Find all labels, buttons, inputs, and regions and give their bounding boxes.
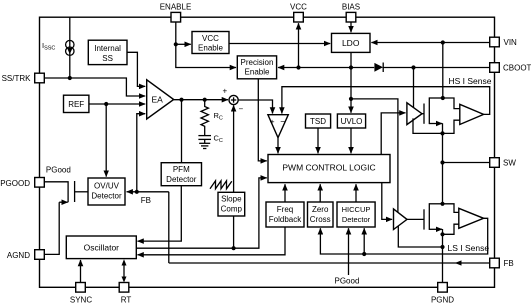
wire Issc from top rail to SS/TRK line — [69, 17, 71, 78]
wire LS FET source to LS sense amp — [443, 224, 459, 234]
junction LS source rail tap — [440, 245, 444, 249]
wire Zero Cross to PWM logic — [319, 184, 321, 202]
junction VCC node above UVLO — [349, 97, 353, 101]
pin ENABLE — [160, 3, 192, 23]
block HICCUP Detector — [337, 202, 375, 227]
wire Freq Foldback to PWM logic — [284, 184, 286, 202]
svg-text:Oscillator: Oscillator — [84, 243, 120, 253]
summing node — [229, 95, 238, 104]
junction VIN line — [441, 40, 445, 44]
block VCC Enable — [192, 32, 229, 54]
wire VIN line to LDO — [371, 42, 489, 44]
svg-text:PGood: PGood — [335, 277, 360, 286]
wire Internal SS to EA input 1 — [127, 52, 145, 86]
junction ENABLE node — [174, 42, 178, 46]
waveform sawtooth slope comp — [210, 181, 232, 189]
junction LDO output at VCC rail — [349, 65, 353, 69]
junction VCC rail at VCC pin — [296, 65, 300, 69]
wire HS current sense feedback to PWM comparator — [282, 87, 490, 115]
wire HICCUP Detector to PWM logic — [355, 184, 357, 202]
svg-text:PFM: PFM — [173, 165, 190, 174]
svg-text:UVLO: UVLO — [341, 117, 363, 126]
svg-text:SS/TRK: SS/TRK — [2, 74, 32, 83]
wire EA output down to PFM Detector — [181, 100, 183, 163]
svg-text:Comp: Comp — [221, 204, 243, 213]
svg-text:REF: REF — [68, 100, 84, 109]
wire HS FET source to HS sense amp — [443, 120, 460, 133]
junction FB node — [135, 190, 139, 194]
wire FB pin to FB node — [169, 262, 490, 264]
block Zero Cross — [308, 202, 334, 227]
pin FB — [490, 258, 514, 268]
wire UVLO to PWM logic — [350, 128, 352, 153]
junction EA output to PFM — [179, 98, 183, 102]
block REF — [64, 95, 89, 112]
wire PFM Detector to Oscillator — [138, 186, 182, 241]
block TSD — [306, 114, 331, 128]
block UVLO — [337, 114, 365, 128]
block Freq Foldback — [266, 202, 304, 227]
junction EA output to compensation — [203, 98, 207, 102]
wire summing node to PWM comparator — [238, 100, 272, 114]
pin CBOOT — [490, 63, 531, 73]
wire HS FET drain to HS sense amp — [443, 98, 460, 109]
junction HS FET source SW node — [440, 131, 444, 135]
capacitor CC compensation — [198, 134, 223, 145]
wire REF to EA input 3 — [89, 103, 145, 105]
pin PGND — [431, 283, 454, 305]
wire LS FET drain to LS sense amp — [443, 204, 459, 213]
arrowhead FB line direction — [455, 260, 462, 265]
wire VCC node to LS driver supply — [351, 99, 398, 212]
diode CBOOT bootstrap — [374, 63, 383, 73]
svg-text:PGND: PGND — [431, 296, 454, 305]
junction SW line — [440, 160, 444, 164]
wire LDO output column to UVLO — [350, 52, 352, 112]
wire SYNC pin to Oscillator — [80, 260, 82, 283]
wire LS FET source to PGND pin — [442, 234, 444, 282]
wire Precision Enable to PWM logic — [258, 79, 267, 161]
pin SS/TRK — [2, 73, 45, 83]
block PFM Detector — [161, 163, 201, 186]
svg-text:Freq: Freq — [277, 205, 293, 214]
svg-text:VCC: VCC — [290, 3, 307, 12]
pin VIN — [490, 37, 517, 47]
wire TSD to PWM logic — [317, 128, 319, 153]
svg-text:Zero: Zero — [312, 205, 329, 214]
svg-text:BIAS: BIAS — [342, 3, 360, 12]
svg-text:Slope: Slope — [221, 195, 242, 204]
current source ISSC — [66, 40, 74, 55]
svg-text:Cross: Cross — [310, 215, 331, 224]
wire ENABLE to Precision Enable — [176, 44, 236, 67]
svg-text:Foldback: Foldback — [269, 215, 302, 224]
block LDO — [332, 33, 371, 52]
svg-text:PWM CONTROL LOGIC: PWM CONTROL LOGIC — [282, 162, 375, 172]
junction CBOOT rail HS driver feed — [411, 65, 415, 69]
junction slope comp tap — [232, 246, 236, 250]
pin VCC — [290, 3, 307, 23]
net stub PGood to HICCUP Detector — [348, 228, 350, 275]
junction LS FET drain — [440, 202, 444, 206]
block OV/UV Detector — [88, 178, 125, 205]
svg-text:SYNC: SYNC — [70, 296, 92, 305]
svg-text:PGOOD: PGOOD — [0, 179, 30, 188]
svg-text:Enable: Enable — [198, 43, 223, 52]
block Internal SS — [88, 40, 127, 64]
wire SW column — [442, 133, 444, 203]
pin SW — [490, 158, 517, 168]
svg-text:PGood: PGood — [46, 166, 71, 175]
wire PWM logic to HS gate driver — [381, 113, 405, 155]
IC boundary border — [40, 17, 495, 287]
pin PGOOD — [0, 178, 44, 189]
svg-text:LS I Sense: LS I Sense — [448, 243, 490, 253]
wire oscillator ramp line to PWM logic — [136, 178, 266, 248]
svg-text:HS I Sense: HS I Sense — [449, 76, 492, 86]
block Oscillator — [66, 236, 136, 259]
svg-text:SS: SS — [102, 54, 113, 63]
ground compensation network — [199, 143, 210, 148]
svg-text:TSD: TSD — [310, 117, 326, 126]
svg-text:−: − — [280, 117, 285, 127]
wire Freq Foldback to Oscillator — [138, 227, 286, 255]
wire HS driver lower rail to source — [413, 118, 443, 133]
wire diode to CBOOT pin — [383, 67, 490, 69]
wire SS/TRK to EA input 2 — [44, 78, 145, 96]
wire VCC pin column — [298, 23, 300, 67]
svg-text:Enable: Enable — [245, 68, 270, 77]
wire BIAS pin to LDO — [350, 22, 352, 32]
wire FB to OV/UV Detector input — [127, 191, 169, 193]
svg-text:FB: FB — [141, 196, 151, 205]
wire VIN down to HS FET drain — [442, 43, 444, 99]
svg-text:Detector: Detector — [166, 175, 197, 184]
svg-text:FB: FB — [504, 259, 514, 268]
junction SS/TRK Issc — [68, 76, 72, 80]
block Precision Enable — [237, 56, 276, 79]
wire FB riser — [168, 192, 170, 263]
junction LS FET source — [440, 232, 444, 236]
transistor Q2 LS power FET — [407, 203, 443, 234]
wire LS current sense to Zero Cross — [320, 218, 487, 254]
op-amp HS current sense amplifier — [460, 104, 484, 124]
svg-text:RT: RT — [121, 296, 132, 305]
svg-text:Detector: Detector — [91, 192, 122, 201]
pin RT — [119, 283, 131, 305]
wire RT pin to Oscillator bidirectional — [123, 265, 125, 278]
pin AGND — [7, 250, 44, 260]
svg-text:LDO: LDO — [342, 38, 360, 48]
wire CBOOT rail to HS driver supply — [413, 68, 415, 108]
comparator PWM — [268, 115, 288, 138]
wire VCC rail to Precision Enable — [278, 67, 374, 69]
wire SW node to SW pin — [443, 162, 490, 164]
op-amp LS current sense amplifier — [459, 208, 484, 228]
svg-text:ENABLE: ENABLE — [160, 3, 192, 12]
wire LS sense line to HICCUP Detector — [363, 228, 365, 254]
svg-text:SW: SW — [503, 159, 516, 168]
pin BIAS — [342, 3, 360, 23]
junction REF node — [104, 102, 108, 106]
wire ENABLE pin to VCC Enable — [176, 22, 191, 44]
wire LS driver lower rail to source node — [398, 226, 442, 247]
buffer HS gate driver — [407, 103, 422, 125]
svg-text:AGND: AGND — [7, 251, 30, 260]
svg-text:VCC: VCC — [202, 34, 219, 43]
wire FB to EA input 4 — [137, 114, 145, 192]
wire Slope Comp down to oscillator ramp line — [233, 216, 235, 248]
wire PWM logic to LS gate driver — [382, 183, 392, 220]
svg-text:HICCUP: HICCUP — [342, 205, 371, 214]
wire comparator output to PWM logic — [277, 138, 279, 154]
wire REF to OV/UV Detector — [105, 104, 107, 177]
svg-text:VIN: VIN — [504, 38, 518, 47]
wire VCC Enable to LDO — [229, 43, 330, 45]
svg-text:+: + — [223, 87, 228, 96]
junction HS FET drain — [441, 96, 445, 100]
svg-text:Detector: Detector — [342, 215, 371, 224]
junction LS sense line HICCUP tap — [362, 252, 366, 256]
svg-text:Internal: Internal — [94, 44, 121, 53]
block Slope Comp — [218, 192, 245, 216]
transistor Q3 PGood open drain — [43, 181, 88, 254]
buffer LS gate driver — [394, 209, 408, 230]
svg-text:CBOOT: CBOOT — [503, 64, 531, 73]
svg-text:−: − — [239, 105, 244, 114]
pin SYNC — [70, 283, 92, 305]
block PWM CONTROL LOGIC — [268, 155, 390, 183]
svg-text:EA: EA — [152, 95, 164, 105]
svg-text:OV/UV: OV/UV — [94, 182, 120, 191]
svg-text:+: + — [270, 117, 275, 127]
op-amp EA error amplifier — [147, 80, 174, 119]
wire Slope Comp to summing node — [233, 105, 235, 192]
svg-text:Precision: Precision — [241, 58, 274, 67]
transistor Q1 HS power FET — [422, 97, 443, 133]
resistor RC compensation — [201, 100, 223, 135]
wire EA output to summing node — [174, 99, 228, 101]
